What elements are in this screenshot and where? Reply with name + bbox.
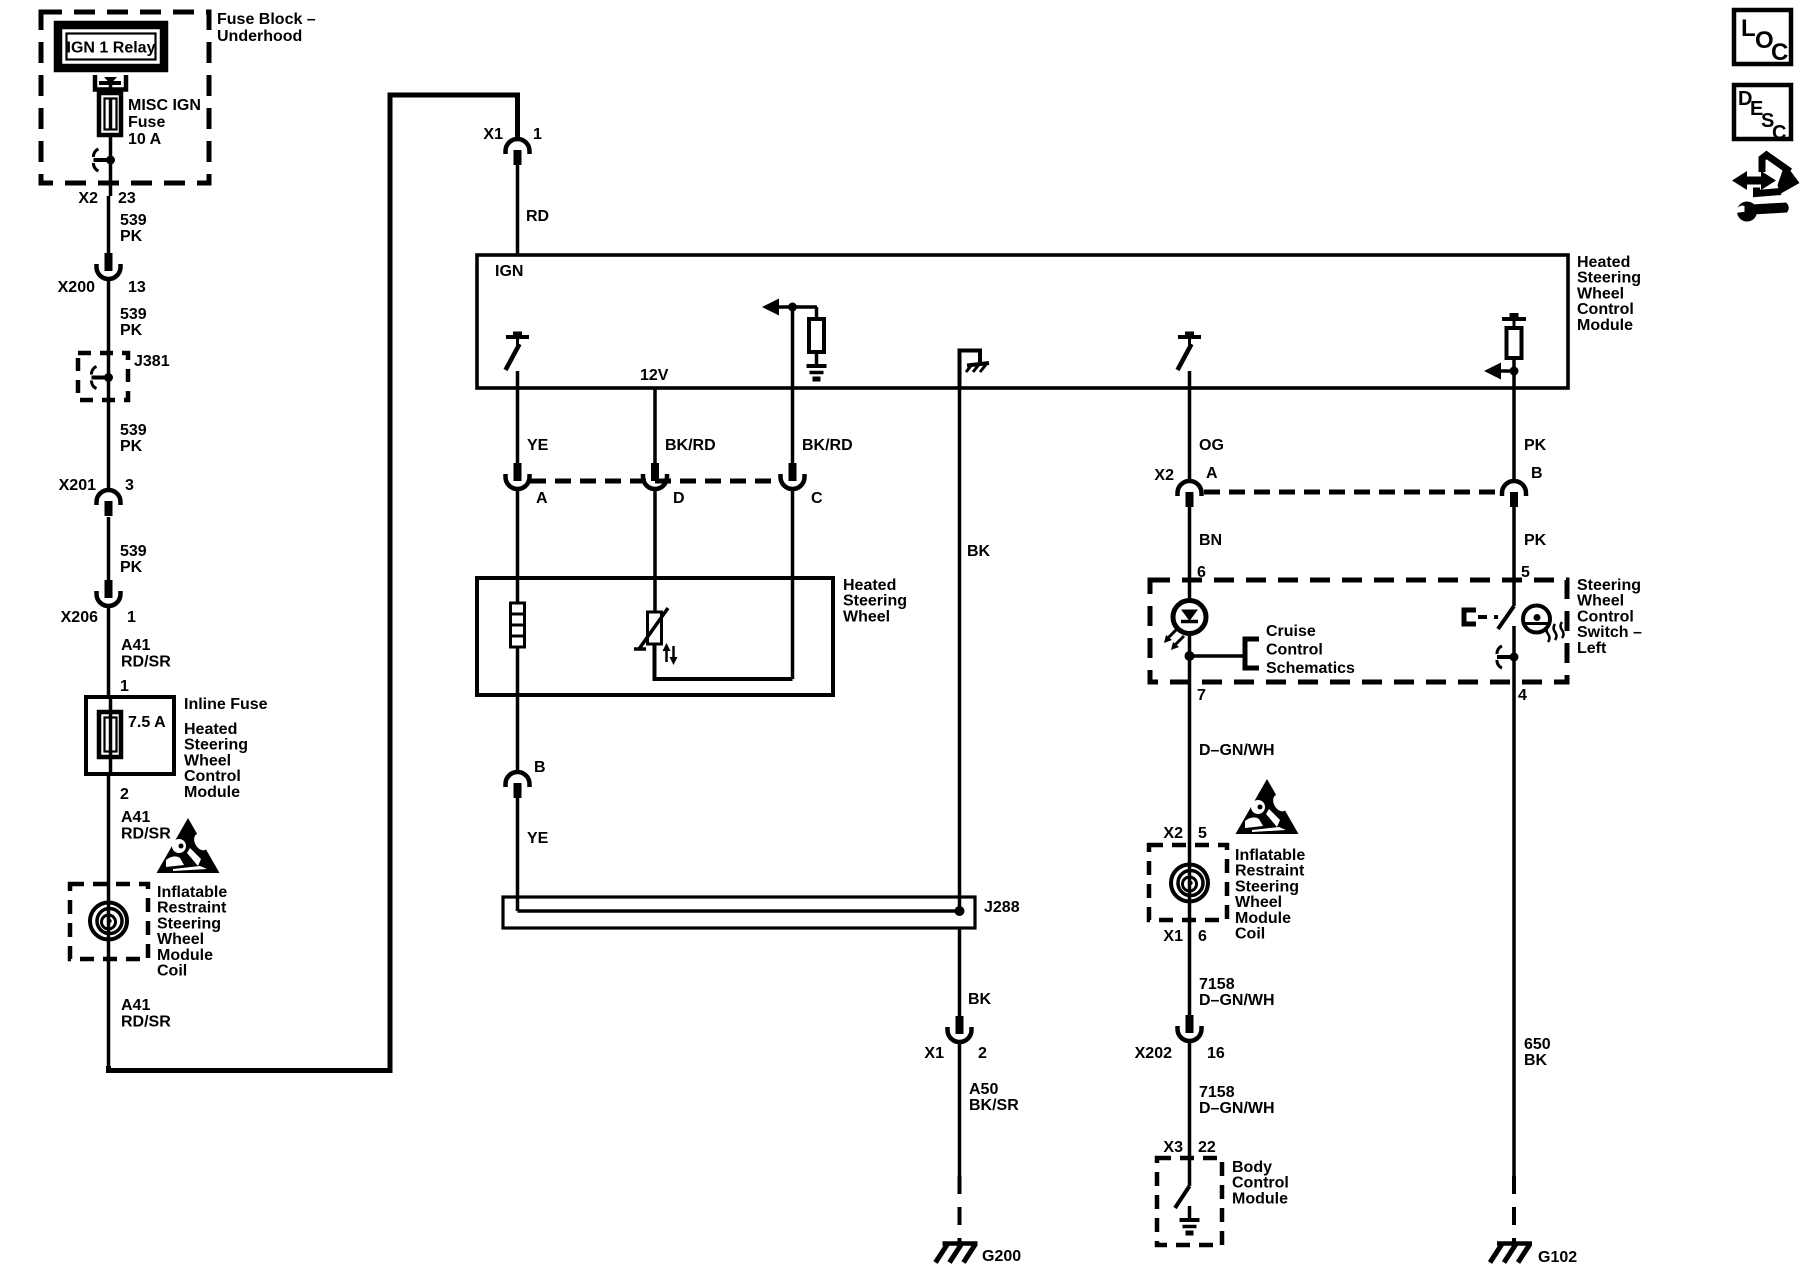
svg-text:B: B bbox=[1531, 465, 1543, 482]
svg-text:D–GN/WH: D–GN/WH bbox=[1199, 1100, 1275, 1117]
off-page bracket E bbox=[1464, 610, 1476, 624]
wire 650 BK bbox=[1512, 682, 1516, 1176]
wire C into heated wheel box bbox=[791, 491, 795, 679]
svg-text:IGN 1 Relay: IGN 1 Relay bbox=[67, 40, 156, 57]
connector X1 pin 2 bbox=[956, 1016, 964, 1034]
thermistor arrows bbox=[665, 648, 668, 662]
svg-text:1: 1 bbox=[533, 126, 542, 143]
wrench icon bbox=[1737, 202, 1757, 222]
svg-text:PK: PK bbox=[1524, 437, 1547, 454]
svg-text:7158: 7158 bbox=[1199, 976, 1235, 993]
module internal wire to pin C bbox=[791, 307, 795, 388]
wire OG to X2-A bbox=[1188, 388, 1192, 481]
svg-text:Wheel: Wheel bbox=[1577, 285, 1624, 302]
svg-text:4: 4 bbox=[1518, 687, 1527, 704]
coil dashed box bbox=[70, 884, 148, 959]
body control module dashed box bbox=[1157, 1158, 1222, 1245]
svg-text:Schematics: Schematics bbox=[1266, 660, 1355, 677]
svg-text:Wheel: Wheel bbox=[1235, 894, 1282, 911]
svg-text:12V: 12V bbox=[640, 367, 669, 384]
connector pin A bbox=[514, 463, 522, 481]
wire D-GN/WH bbox=[1188, 682, 1192, 845]
svg-text:Restraint: Restraint bbox=[157, 900, 227, 917]
svg-text:Fuse: Fuse bbox=[128, 114, 165, 131]
wire D into heated wheel box bbox=[653, 491, 657, 612]
connector pin C bbox=[789, 463, 797, 481]
svg-text:A50: A50 bbox=[969, 1081, 998, 1098]
svg-text:G200: G200 bbox=[982, 1248, 1021, 1265]
svg-text:PK: PK bbox=[1524, 532, 1547, 549]
svg-text:Steering: Steering bbox=[184, 737, 248, 754]
terminal in switch box bbox=[1497, 655, 1514, 659]
svg-text:Switch –: Switch – bbox=[1577, 624, 1642, 641]
svg-text:RD/SR: RD/SR bbox=[121, 654, 171, 671]
module internal chassis ground stub bbox=[960, 351, 981, 389]
svg-text:PK: PK bbox=[120, 559, 143, 576]
svg-text:Wheel: Wheel bbox=[843, 608, 890, 625]
svg-text:7.5 A: 7.5 A bbox=[128, 714, 166, 731]
wire BK/RD to pin D bbox=[653, 388, 657, 464]
heated switch icon bbox=[1523, 606, 1550, 633]
svg-text:D: D bbox=[673, 490, 685, 507]
connector B bbox=[506, 772, 530, 787]
svg-text:13: 13 bbox=[128, 279, 146, 296]
wire through coil bbox=[1188, 845, 1192, 920]
wire A50 BK/SR bbox=[958, 1044, 962, 1176]
svg-text:Module: Module bbox=[1235, 910, 1291, 927]
svg-text:539: 539 bbox=[120, 422, 147, 439]
fuse 7.5 A bbox=[99, 712, 121, 757]
svg-text:RD/SR: RD/SR bbox=[121, 826, 171, 843]
svg-text:Wheel: Wheel bbox=[1577, 593, 1624, 610]
BCM ground bbox=[1188, 1206, 1192, 1219]
wire switch contact bbox=[1512, 626, 1516, 682]
svg-text:1: 1 bbox=[120, 678, 129, 695]
svg-text:A: A bbox=[536, 490, 548, 507]
wire BK to X1-2 bbox=[958, 928, 962, 1017]
svg-text:G102: G102 bbox=[1538, 1249, 1577, 1266]
wire BK/RD to pin C bbox=[791, 388, 795, 464]
connector X202 pin 16 bbox=[1186, 1015, 1194, 1033]
svg-text:10 A: 10 A bbox=[128, 131, 162, 148]
svg-text:2: 2 bbox=[978, 1045, 987, 1062]
connector X2 pin A bbox=[1178, 481, 1202, 496]
svg-text:Inflatable: Inflatable bbox=[157, 884, 227, 901]
svg-text:BK: BK bbox=[968, 991, 992, 1008]
svg-text:Steering: Steering bbox=[1577, 577, 1641, 594]
svg-text:7158: 7158 bbox=[1199, 1084, 1235, 1101]
svg-text:Underhood: Underhood bbox=[217, 28, 302, 45]
navigation arrows icon bbox=[1732, 171, 1776, 190]
wire YE to pin A bbox=[516, 388, 520, 464]
svg-text:A: A bbox=[1206, 465, 1218, 482]
SIR caution triangle bbox=[157, 818, 220, 873]
svg-text:D–GN/WH: D–GN/WH bbox=[1199, 742, 1275, 759]
dashed wire to G200 bbox=[958, 1176, 962, 1243]
svg-text:Wheel: Wheel bbox=[157, 931, 204, 948]
module internal junction bbox=[788, 303, 797, 312]
splice J288 bbox=[503, 897, 975, 928]
svg-text:X3: X3 bbox=[1163, 1139, 1183, 1156]
svg-text:Heated: Heated bbox=[1577, 254, 1630, 271]
coil dashed box right bbox=[1149, 845, 1227, 920]
svg-text:539: 539 bbox=[120, 306, 147, 323]
svg-text:X1: X1 bbox=[483, 126, 503, 143]
junction to cruise bbox=[1185, 651, 1195, 661]
wire A41 RD/SR down bbox=[107, 959, 111, 1068]
svg-text:PK: PK bbox=[120, 438, 143, 455]
splice J381 dashed box bbox=[78, 353, 128, 400]
svg-text:BK: BK bbox=[1524, 1052, 1548, 1069]
DESC icon box bbox=[1734, 85, 1791, 139]
module internal earth ground bbox=[807, 364, 827, 368]
svg-text:A41: A41 bbox=[121, 809, 150, 826]
svg-text:2: 2 bbox=[120, 786, 129, 803]
terminal in fuse block bbox=[94, 158, 111, 162]
svg-text:Cruise: Cruise bbox=[1266, 623, 1316, 640]
svg-text:Control: Control bbox=[1232, 1175, 1289, 1192]
relay contact symbol bbox=[95, 75, 126, 90]
svg-text:Module: Module bbox=[184, 784, 240, 801]
heated steering wheel box bbox=[477, 578, 833, 695]
svg-text:X2: X2 bbox=[78, 190, 98, 207]
svg-text:Steering: Steering bbox=[157, 915, 221, 932]
thermistor bbox=[648, 612, 662, 644]
svg-text:Steering: Steering bbox=[1235, 878, 1299, 895]
wire thermistor to C elbow bbox=[655, 644, 793, 679]
inline fuse box bbox=[86, 697, 174, 774]
wire A41 RD/SR to coil bbox=[107, 773, 111, 884]
wire 539 PK to X206 bbox=[107, 517, 111, 580]
svg-text:5: 5 bbox=[1521, 564, 1530, 581]
svg-text:Steering: Steering bbox=[1577, 270, 1641, 287]
svg-text:X201: X201 bbox=[59, 477, 96, 494]
svg-text:D–GN/WH: D–GN/WH bbox=[1199, 992, 1275, 1009]
svg-text:Heated: Heated bbox=[184, 721, 237, 738]
svg-text:Module: Module bbox=[157, 947, 213, 964]
svg-text:YE: YE bbox=[527, 437, 549, 454]
svg-text:539: 539 bbox=[120, 543, 147, 560]
dashed wire to G102 bbox=[1512, 1176, 1516, 1243]
svg-text:PK: PK bbox=[120, 322, 143, 339]
wire BK from module bbox=[958, 388, 962, 911]
svg-text:Control: Control bbox=[1266, 642, 1323, 659]
svg-text:Inflatable: Inflatable bbox=[1235, 847, 1305, 864]
svg-text:IGN: IGN bbox=[495, 263, 523, 280]
svg-text:Left: Left bbox=[1577, 640, 1607, 657]
heater element bbox=[511, 603, 525, 647]
BCM switch bbox=[1188, 1158, 1192, 1186]
svg-text:RD/SR: RD/SR bbox=[121, 1014, 171, 1031]
svg-text:PK: PK bbox=[120, 228, 143, 245]
LOC icon box bbox=[1734, 10, 1791, 64]
fuse MISC IGN 10 A bbox=[99, 93, 121, 135]
svg-text:C: C bbox=[1772, 122, 1786, 144]
wire RD bbox=[516, 165, 520, 255]
svg-text:A41: A41 bbox=[121, 997, 150, 1014]
LED arrows bbox=[1167, 629, 1177, 639]
svg-text:Inline Fuse: Inline Fuse bbox=[184, 696, 268, 713]
svg-text:5: 5 bbox=[1198, 825, 1207, 842]
svg-text:Control: Control bbox=[184, 768, 241, 785]
wire fuse output bbox=[109, 135, 113, 196]
wire 539 PK to J381 bbox=[107, 281, 111, 489]
wire PK to B bbox=[1512, 388, 1516, 481]
heated switch blade bbox=[1498, 606, 1514, 629]
svg-text:Heated: Heated bbox=[843, 577, 896, 594]
module internal switch 1 bbox=[506, 335, 529, 339]
svg-text:Body: Body bbox=[1232, 1159, 1272, 1176]
wire through coil bbox=[107, 884, 111, 959]
module internal resistor 2 bbox=[1502, 317, 1526, 321]
svg-text:16: 16 bbox=[1207, 1045, 1225, 1062]
off-page bracket cruise bbox=[1245, 639, 1259, 668]
svg-text:539: 539 bbox=[120, 212, 147, 229]
connector X206 pin 1 bbox=[105, 580, 113, 598]
svg-text:Restraint: Restraint bbox=[1235, 863, 1305, 880]
wire 7158 D-GN/WH bbox=[1188, 920, 1192, 1016]
svg-text:YE: YE bbox=[527, 830, 549, 847]
svg-text:MISC IGN: MISC IGN bbox=[128, 97, 201, 114]
connector pin D bbox=[651, 463, 659, 481]
svg-text:RD: RD bbox=[526, 208, 549, 225]
indicator LED bbox=[1173, 601, 1206, 634]
svg-text:Control: Control bbox=[1577, 608, 1634, 625]
wire heater to B bbox=[516, 647, 520, 771]
svg-text:Coil: Coil bbox=[1235, 926, 1265, 943]
relay IGN 1 Relay bbox=[58, 25, 164, 68]
wire LED down bbox=[1188, 634, 1192, 683]
svg-text:X202: X202 bbox=[1135, 1045, 1172, 1062]
coil spiral bbox=[90, 903, 127, 940]
wire YE to J288 bbox=[516, 798, 520, 911]
connector X1 pin 1 bbox=[506, 139, 530, 154]
wire BN bbox=[1188, 507, 1192, 601]
svg-text:Coil: Coil bbox=[157, 963, 187, 980]
svg-text:Steering: Steering bbox=[843, 593, 907, 610]
connector X201 pin 3 bbox=[97, 490, 121, 505]
module internal switch 2 bbox=[1178, 335, 1201, 339]
svg-text:C: C bbox=[811, 490, 823, 507]
svg-text:22: 22 bbox=[1198, 1139, 1216, 1156]
wire A into heated wheel box bbox=[516, 491, 520, 603]
coil spiral right bbox=[1171, 865, 1208, 902]
svg-text:X200: X200 bbox=[58, 279, 95, 296]
svg-text:J288: J288 bbox=[984, 899, 1020, 916]
svg-text:BN: BN bbox=[1199, 532, 1222, 549]
module internal resistor 1 bbox=[815, 307, 819, 319]
wire loop bottom and up to X1 bbox=[109, 95, 518, 1071]
steering wheel control switch dashed box bbox=[1150, 580, 1567, 682]
svg-text:BK/SR: BK/SR bbox=[969, 1097, 1019, 1114]
svg-text:7: 7 bbox=[1197, 687, 1206, 704]
svg-text:6: 6 bbox=[1198, 928, 1207, 945]
svg-text:X206: X206 bbox=[61, 609, 98, 626]
wire 539 PK to X200 bbox=[107, 196, 111, 253]
svg-text:X2: X2 bbox=[1154, 467, 1174, 484]
SIR caution triangle right bbox=[1236, 779, 1299, 834]
svg-text:OG: OG bbox=[1199, 437, 1224, 454]
svg-text:J381: J381 bbox=[134, 353, 170, 370]
wire PK to switch bbox=[1512, 507, 1516, 606]
module internal arrow in bbox=[1484, 363, 1501, 380]
svg-text:Fuse Block –: Fuse Block – bbox=[217, 11, 316, 28]
module internal arrow out bbox=[773, 305, 817, 309]
connector row dashed link A-B bbox=[1204, 490, 1502, 495]
terminal J381 bbox=[92, 376, 109, 380]
svg-text:Module: Module bbox=[1232, 1190, 1288, 1207]
svg-text:1: 1 bbox=[127, 609, 136, 626]
svg-text:BK/RD: BK/RD bbox=[802, 437, 853, 454]
svg-text:A41: A41 bbox=[121, 637, 150, 654]
svg-text:650: 650 bbox=[1524, 1036, 1551, 1053]
svg-text:Wheel: Wheel bbox=[184, 752, 231, 769]
svg-text:X1: X1 bbox=[924, 1045, 944, 1062]
svg-text:3: 3 bbox=[125, 477, 134, 494]
svg-text:Module: Module bbox=[1577, 317, 1633, 334]
svg-text:BK: BK bbox=[967, 543, 991, 560]
connector X200 pin 13 bbox=[105, 253, 113, 271]
svg-text:C: C bbox=[1771, 39, 1788, 66]
svg-text:23: 23 bbox=[118, 190, 136, 207]
svg-text:B: B bbox=[534, 759, 546, 776]
svg-text:L: L bbox=[1741, 15, 1756, 42]
connector row dashed link A-D-C bbox=[530, 479, 780, 484]
fuse block underhood dashed box bbox=[41, 12, 209, 183]
module box Heated Steering Wheel Control Module bbox=[477, 255, 1568, 388]
svg-text:X1: X1 bbox=[1163, 928, 1183, 945]
ground G200 bbox=[943, 1241, 978, 1246]
svg-text:X2: X2 bbox=[1163, 825, 1183, 842]
ground G102 bbox=[1497, 1241, 1532, 1246]
wire 7158 D-GN/WH 2 bbox=[1188, 1043, 1192, 1158]
svg-text:Control: Control bbox=[1577, 301, 1634, 318]
connector pin B bbox=[1502, 481, 1526, 496]
svg-text:BK/RD: BK/RD bbox=[665, 437, 716, 454]
wire A41 RD/SR to inline fuse bbox=[107, 607, 111, 696]
